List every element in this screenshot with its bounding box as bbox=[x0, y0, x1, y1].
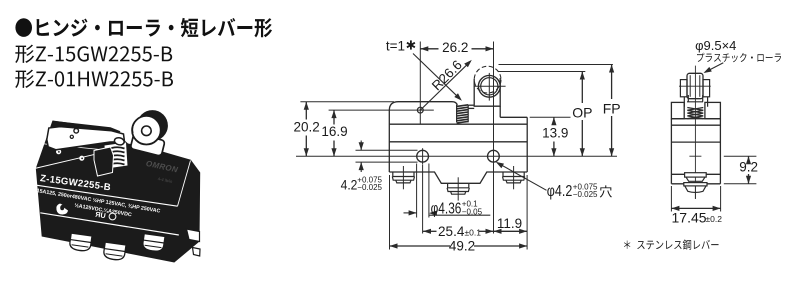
svg-text:13.9: 13.9 bbox=[542, 126, 568, 141]
svg-text:φ4.36: φ4.36 bbox=[431, 200, 462, 217]
dim 20.2 left bbox=[300, 101, 394, 103]
header title line bbox=[15, 18, 272, 37]
photo: seam white lines bbox=[34, 185, 178, 206]
label plastic roller bbox=[697, 53, 781, 63]
dim 13.9 right bbox=[530, 116, 571, 118]
photo: roller rim (black) bbox=[137, 110, 168, 141]
side view right ear bbox=[705, 102, 721, 118]
dim 16.9 left bbox=[333, 110, 335, 124]
front view roller free position (dashed) bbox=[474, 66, 501, 93]
side view left ear bbox=[671, 102, 684, 118]
svg-text:−0.05: −0.05 bbox=[462, 208, 483, 217]
svg-text:9.2: 9.2 bbox=[739, 159, 758, 174]
leader t=1 to lever bbox=[413, 54, 460, 100]
dim 25.4 bbox=[422, 165, 424, 234]
svg-text:±0.1: ±0.1 bbox=[465, 227, 482, 237]
model number line 2 bbox=[15, 70, 173, 88]
front view plunger spring (hatched) bbox=[457, 105, 469, 123]
side view hole center cross bbox=[689, 155, 701, 157]
svg-text:16.9: 16.9 bbox=[321, 124, 347, 139]
front view left mounting hole bbox=[417, 150, 429, 162]
photo: lever rivets and hole bbox=[74, 129, 79, 134]
front view body top line bbox=[389, 123, 527, 125]
svg-text:FP: FP bbox=[603, 100, 621, 116]
side view fork prongs bbox=[680, 80, 687, 97]
svg-text:17.45: 17.45 bbox=[672, 210, 707, 226]
svg-text:φ4.2: φ4.2 bbox=[547, 183, 573, 200]
photo: spring bbox=[105, 143, 128, 169]
roller vertical extension line bbox=[493, 42, 495, 234]
svg-text:φ9.5×4: φ9.5×4 bbox=[695, 38, 736, 53]
svg-text:49.2: 49.2 bbox=[449, 239, 475, 254]
svg-text:OP: OP bbox=[572, 104, 592, 120]
leader phi4.2 hole right bbox=[497, 163, 546, 191]
svg-text:26.2: 26.2 bbox=[442, 40, 468, 55]
dim 11.9 bbox=[526, 175, 528, 250]
note stainless steel lever bbox=[624, 240, 719, 250]
model number line 1 bbox=[15, 45, 172, 63]
photo: roller fork bracket bbox=[130, 133, 165, 156]
svg-text:−0.025: −0.025 bbox=[357, 183, 382, 192]
front view terminal left bbox=[393, 172, 414, 176]
svg-text:t=1: t=1 bbox=[386, 39, 405, 54]
pivot vertical extension to 26.2 dim bbox=[419, 42, 421, 125]
svg-text:ЯU: ЯU bbox=[95, 210, 107, 221]
svg-text:−0.025: −0.025 bbox=[573, 190, 598, 199]
OP FP extension lines bbox=[499, 64, 613, 66]
front view body bottom edge with center notch bbox=[389, 172, 527, 183]
side view body outline bbox=[670, 119, 672, 184]
photo: lever plate bbox=[47, 127, 125, 150]
dim R26.6 radius line bbox=[420, 61, 470, 110]
front view roller bracket bbox=[474, 78, 500, 106]
side view spring bbox=[687, 108, 703, 119]
dim 4.2 hole height bbox=[356, 149, 418, 151]
dim 26.2 top bbox=[420, 48, 438, 50]
dim 49.2 bbox=[389, 175, 391, 250]
front view roller (solid position) bbox=[478, 75, 500, 97]
pivot horizontal centerline bbox=[329, 109, 434, 111]
front view body right edge bbox=[526, 117, 528, 172]
product photo: switch body silhouette bbox=[36, 121, 200, 263]
dim 17.45 bbox=[670, 186, 672, 212]
front view lever strip bbox=[468, 104, 474, 106]
front view body top right step bbox=[500, 116, 527, 118]
leader to roller bbox=[705, 63, 723, 72]
side view roller centerlines bbox=[694, 66, 696, 199]
svg-text:4.2: 4.2 bbox=[341, 178, 358, 193]
photo: plunger boss block bbox=[94, 147, 114, 176]
dim 9.2 bbox=[724, 155, 757, 157]
svg-text:11.9: 11.9 bbox=[497, 216, 522, 231]
side view lever channel bbox=[684, 95, 707, 107]
side view terminal stack bbox=[685, 173, 707, 177]
photo: top/front fold line bbox=[35, 154, 96, 168]
dim OP bbox=[581, 72, 583, 104]
photo: roller face bbox=[132, 116, 161, 145]
svg-text:25.4: 25.4 bbox=[438, 224, 465, 239]
front view terminal center bbox=[448, 184, 469, 188]
dim phi4.36 hole width bbox=[416, 164, 418, 218]
svg-text:R26.6: R26.6 bbox=[429, 57, 465, 93]
photo: lever top ridge (black strip) bbox=[53, 121, 121, 134]
front view right mounting hole bbox=[488, 150, 500, 162]
photo: right corner terminal bbox=[187, 229, 200, 242]
photo: terminals bbox=[69, 233, 92, 252]
svg-text:±0.2: ±0.2 bbox=[706, 214, 723, 224]
front view switch body outline bbox=[389, 102, 457, 172]
photo: cover screws (white dots) bbox=[56, 149, 61, 154]
front view body seam line bbox=[389, 141, 527, 143]
kanji hole (ana) bbox=[600, 185, 612, 197]
front view mounting hole centerline bbox=[296, 155, 617, 157]
front view roller centerlines bbox=[474, 85, 506, 87]
photo: UL recognized mark bbox=[56, 204, 68, 215]
dim FP bbox=[611, 65, 613, 100]
svg-text:20.2: 20.2 bbox=[293, 120, 319, 135]
front view terminal right bbox=[503, 172, 524, 176]
front view lever pivot bbox=[417, 107, 423, 113]
side view roller (edge) bbox=[687, 73, 703, 98]
